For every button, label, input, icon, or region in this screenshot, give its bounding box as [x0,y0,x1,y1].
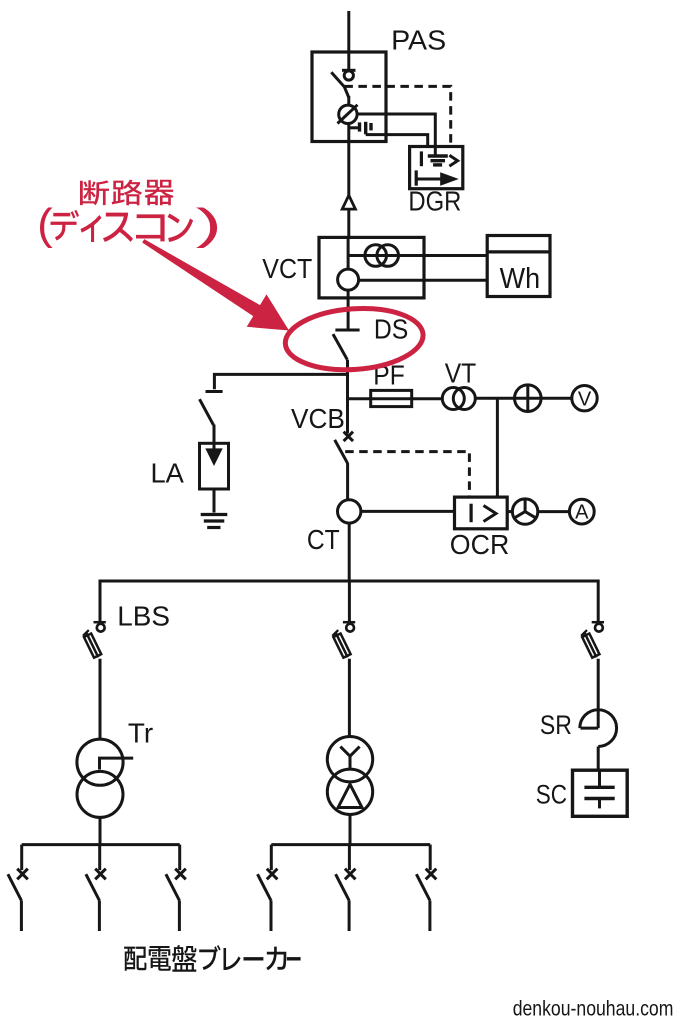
LA switch fixed contact tick [206,390,223,393]
LA ground bar 1 [201,513,228,516]
ZCT zero-phase CT circle [339,105,357,123]
wire trunk inside VCT box [347,237,350,269]
PAS switch fixed contact tick [342,69,356,72]
PAS switch contact circle [344,71,353,80]
LA ground bar 2 [204,519,225,522]
DGR ground bar 2 [431,159,446,162]
wire LBS to SR [597,659,600,728]
svg-text:VCB: VCB [291,403,345,434]
VT circle left [442,388,464,410]
svg-text:Wh: Wh [500,262,540,294]
svg-text:denkou-nouhau.com: denkou-nouhau.com [513,997,674,1021]
VCT VT circle [338,269,359,290]
delta symbol [338,784,362,807]
wire VCT VT row to Wh [359,279,488,282]
grounding capacitor bar 1 [358,122,361,131]
Tr transformer circle bottom [77,771,123,817]
LV bus 2 [271,843,430,846]
DGR I bar [420,151,423,166]
panel breaker 4 [258,845,278,931]
LA switch blade [200,399,214,425]
PAS grounding tap wire [349,126,358,129]
svg-text:SR: SR [540,712,572,741]
SC capacitor plate bottom [584,797,614,800]
wire AS to A meter [538,510,570,513]
svg-text:Tr: Tr [128,718,153,749]
wire center feeder from bus [348,581,351,624]
wire LBS to Tr [99,659,102,740]
red annotation arrow [142,239,289,330]
red label 断路器 [80,180,109,205]
panel breaker 3 [166,845,186,931]
LBS switch center feeder [331,622,355,659]
svg-text:LBS: LBS [117,601,170,632]
wire CT to OCR [361,510,455,513]
panel breaker 1 [8,845,28,931]
SC capacitor lead [598,770,601,787]
VS cross horizontal [515,397,542,400]
LA arrester box [200,443,229,489]
panel breaker 5 [336,845,356,931]
VCB contact X mark [344,432,353,441]
PF power fuse box [371,390,412,406]
red ellipse highlight around DS [283,304,425,374]
wire LA blade to arrester [213,425,216,444]
OCR greater-than mark [484,506,497,522]
wire VCT CT row to Wh [349,254,487,257]
VS cross vertical [526,385,529,412]
wire right feeder from bus [597,580,600,624]
wire VS to V meter [541,397,572,400]
panel breaker 6 [416,845,436,931]
wire SR to SC [597,747,600,771]
DGR greater-than mark [449,155,457,166]
DGR ground bar 1 [428,154,448,157]
wire DS to branches [346,360,349,434]
DGR direction arrow line [416,178,442,181]
svg-text:A: A [575,502,589,524]
SC capacitor plate top [584,786,614,789]
SC capacitor stub [598,799,601,809]
Tr tap symbol [100,758,134,769]
A ammeter circle [569,499,594,524]
Tr transformer circle top [77,739,123,785]
svg-text:DGR: DGR [408,187,461,217]
wire Y-D to LV bus 2 [349,815,352,847]
wire VCB to CT [346,463,349,500]
PAS switch blade [331,72,349,97]
LV bus 1 [22,843,180,846]
svg-text:LA: LA [151,457,185,488]
svg-text:OCR: OCR [450,528,509,559]
DGR direction arrowhead [440,172,459,185]
Y-D transformer circle top [327,737,372,782]
CT current transformer circle [338,500,361,523]
svg-text:SC: SC [536,781,567,810]
svg-text:CT: CT [307,524,340,556]
AS spoke lower-right [525,512,536,519]
DGR ground bar 3 [433,163,442,166]
AS spoke up [524,499,527,512]
svg-text:VCT: VCT [262,253,312,284]
label 配電盤ブレーカー [124,947,146,971]
wire capacitor to DGR box top [366,135,428,147]
wire VCT to DS [347,290,350,330]
DS fixed contact tick [335,329,359,332]
Wh box inner line [487,250,550,253]
wire Tr to LV bus 1 [99,817,102,846]
V voltmeter circle [572,386,597,411]
VCT CT circle right [377,245,399,267]
grounding capacitor bar 3 short [369,123,372,130]
wire left feeder from bus [99,580,102,624]
wire blade to ZCT [347,96,350,106]
DS blade [333,334,347,360]
panel breaker 2 [86,845,106,931]
dashed control wire PAS to DGR [344,86,450,146]
AS ammeter switch circle [512,499,537,524]
HV bus [100,580,598,583]
LA ground bar 3 [207,526,220,529]
wire VT row drop to OCR [496,398,499,497]
VCT box [319,237,424,298]
wire cable head to VCT [347,209,350,237]
wire ZCT to cable head [347,123,350,196]
wire ZCT to DGR ground [357,114,436,155]
VCB blade [335,440,348,463]
svg-text:V: V [578,388,592,410]
Wh meter box [487,236,550,297]
DGR direction bar [415,170,418,185]
ZCT slash [338,105,358,124]
cable head triangle [342,195,355,209]
SR series reactor arc [580,710,617,747]
SC capacitor box [573,770,628,816]
LA arrester arrow shaft [213,443,216,452]
VS voltmeter switch circle [515,385,542,412]
VCT CT circle left [365,245,387,267]
OCR relay box [455,497,508,529]
grounding capacitor bar 2 tall [364,122,367,135]
wire incoming service drop [347,11,350,70]
wire branch to PF [348,397,444,400]
SR series reactor tail [581,727,599,730]
wire OCR to AS [507,510,512,513]
VT circle right [453,388,475,410]
wire branch to LA [214,374,348,389]
LBS switch left feeder [82,622,106,659]
AS spoke lower-left [514,512,525,519]
Y symbol [340,747,359,770]
LBS switch right feeder [580,622,604,659]
svg-text:PAS: PAS [391,25,446,55]
OCR I bar [470,504,473,523]
svg-text:VT: VT [445,357,477,389]
DGR relay box [410,147,463,189]
wire VT to VS [475,397,514,400]
red label （ディスコン） [40,208,53,249]
dashed trip wire VCB to OCR [345,452,469,497]
PAS enclosure box [312,52,386,142]
Y-D transformer circle bottom [327,769,372,814]
wire LBS to Y-D transformer [348,659,351,738]
wire CT to HV bus [348,523,351,581]
wire arrester to ground [213,489,216,513]
LA arrester arrowhead [205,448,222,466]
svg-text:DS: DS [374,313,408,345]
